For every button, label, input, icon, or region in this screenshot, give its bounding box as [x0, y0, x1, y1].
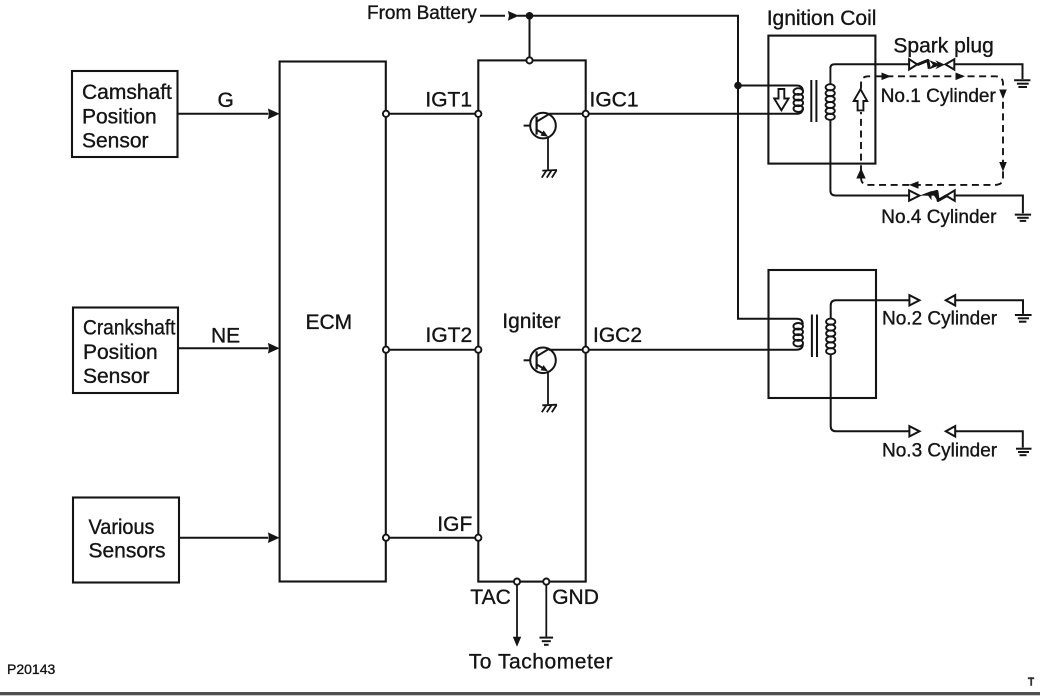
block U1 ECM [280, 62, 386, 582]
svg-text:G: G [218, 89, 234, 112]
wire: battery branch down to igniter supply pin [529, 16, 531, 58]
wire: No.1 spark plug to ground [954, 64, 1022, 79]
node IGT2 at igniter [475, 347, 481, 353]
sensor box B1 Camshaft Position Sensor [72, 71, 178, 157]
svg-text:Position: Position [82, 106, 157, 129]
svg-text:IGT2: IGT2 [426, 324, 473, 347]
wire: No.4 spark plug to ground [955, 196, 1023, 214]
svg-text:IGC1: IGC1 [590, 88, 639, 111]
svg-text:Camshaft: Camshaft [82, 81, 172, 104]
sensor box B3 Various Sensors [73, 498, 179, 583]
earth ground: No.1 cylinder [1014, 80, 1030, 87]
earth ground: No.3 cylinder [1016, 449, 1032, 456]
coil 2 primary winding [793, 323, 803, 346]
junction dot: battery to igniter branch [526, 12, 534, 20]
svg-text:IGC2: IGC2 [593, 324, 642, 347]
node GND on igniter bottom [543, 579, 549, 585]
wire: No.2 spark plug to ground [955, 300, 1023, 314]
sensor box B2 Crankshaft Position Sensor [73, 308, 178, 394]
svg-text:Sensor: Sensor [83, 365, 150, 388]
svg-text:NE: NE [211, 325, 240, 348]
svg-text:From Battery: From Battery [367, 3, 477, 24]
svg-text:TAC: TAC [470, 586, 510, 609]
svg-text:To Tachometer: To Tachometer [469, 651, 614, 674]
block T2 ignition coil 2 box [769, 270, 877, 398]
wire: coil 1 secondary top to No.1 spark plug [830, 64, 908, 68]
label Crankshaft Position Sensor [83, 317, 176, 389]
wire: Q1 emitter to ground [547, 137, 549, 170]
svg-text:Various: Various [89, 516, 155, 539]
junction dot: battery branch to coil 1 [734, 82, 742, 90]
node IGC1 at igniter [583, 111, 589, 117]
svg-text:Position: Position [83, 341, 158, 364]
node IGC2 at igniter [583, 347, 589, 353]
wire: No.3 spark plug to ground [955, 431, 1023, 447]
svg-text:P20143: P20143 [7, 661, 55, 677]
svg-text:No.2 Cylinder: No.2 Cylinder [882, 309, 998, 330]
coil 2 core [812, 315, 817, 358]
svg-text:No.4 Cylinder: No.4 Cylinder [881, 207, 997, 228]
label T [1028, 677, 1034, 686]
chassis ground: Q2 emitter [542, 405, 557, 413]
svg-text:Spark plug: Spark plug [893, 34, 993, 57]
node: igniter supply pin [526, 57, 532, 63]
wire NE: crankshaft sensor to ECM [178, 343, 280, 354]
block U2 Igniter [478, 60, 585, 581]
svg-text:No.1 Cylinder: No.1 Cylinder [881, 86, 997, 107]
wire: coil 1 secondary bottom to No.4 spark plug [830, 119, 910, 196]
svg-text:Ignition Coil: Ignition Coil [767, 7, 877, 30]
wire from battery: feed line with arrowhead, to coil 2 primary [480, 11, 803, 324]
spark plug SP4 gap with spark [909, 190, 955, 200]
coil 1 core [811, 80, 816, 122]
wire: Q2 emitter to ground [547, 371, 549, 404]
svg-text:Sensors: Sensors [89, 540, 166, 563]
node IGT2 at ECM [383, 347, 389, 353]
dashed loop arrowheads [856, 73, 1007, 189]
node IGT1 at igniter [475, 111, 481, 117]
node IGT1 at ECM [383, 111, 389, 117]
svg-text:IGF: IGF [437, 513, 472, 536]
wire: various sensors to ECM [179, 532, 280, 543]
wire IGT1: ECM to igniter [389, 113, 475, 115]
wire IGC2: transistor collector to ignition coil 2 primary [549, 344, 803, 350]
dashed secondary current loop (coil 1) [861, 76, 1003, 185]
wire GND to earth ground [545, 585, 547, 637]
coil 2 secondary winding [826, 319, 835, 355]
coil 1 secondary winding [826, 67, 835, 120]
spark plug SP3 gap [909, 426, 955, 436]
current direction arrow (hollow, down) in coil 1 primary [774, 89, 788, 110]
bottom rule [0, 692, 1040, 695]
chassis ground: Q1 emitter [542, 170, 557, 178]
coil 1 primary winding [794, 88, 804, 112]
transistor Q2 [524, 348, 556, 374]
earth ground: No.4 cylinder [1015, 215, 1031, 221]
earth ground: No.2 cylinder [1015, 315, 1032, 322]
svg-text:Igniter: Igniter [502, 310, 560, 333]
transistor Q1 [524, 113, 556, 139]
svg-text:GND: GND [552, 586, 599, 609]
wire IGC1: transistor collector to ignition coil 1 primary [549, 108, 803, 114]
svg-text:ECM: ECM [306, 311, 353, 334]
wire: coil 2 secondary bottom to No.3 spark plug [831, 354, 910, 432]
svg-text:IGT1: IGT1 [425, 88, 472, 111]
wire TAC to tachometer with arrowhead [513, 585, 521, 647]
node IGF at ECM [383, 535, 389, 541]
block T1 ignition coil 1 box [768, 36, 875, 164]
svg-text:No.3 Cylinder: No.3 Cylinder [882, 441, 998, 462]
hollow up arrow in dashed loop [854, 89, 868, 110]
label Camshaft Position Sensor [82, 81, 172, 153]
wire: coil 2 secondary top to No.2 spark plug [831, 300, 910, 319]
spark plug SP2 gap [909, 295, 955, 305]
wire: battery branch to coil 1 primary top [738, 86, 803, 92]
label Various Sensors [89, 516, 166, 563]
wire G: camshaft sensor to ECM [178, 109, 280, 120]
svg-text:Crankshaft: Crankshaft [83, 317, 176, 340]
wire IGT2: ECM to igniter [389, 349, 475, 351]
wire IGF: ECM to igniter [389, 537, 475, 539]
node TAC on igniter bottom [514, 579, 520, 585]
earth ground: GND pin [540, 638, 554, 645]
svg-text:Sensor: Sensor [82, 130, 149, 153]
node IGF at igniter [475, 535, 481, 541]
spark plug SP1 gap with spark [909, 59, 954, 69]
